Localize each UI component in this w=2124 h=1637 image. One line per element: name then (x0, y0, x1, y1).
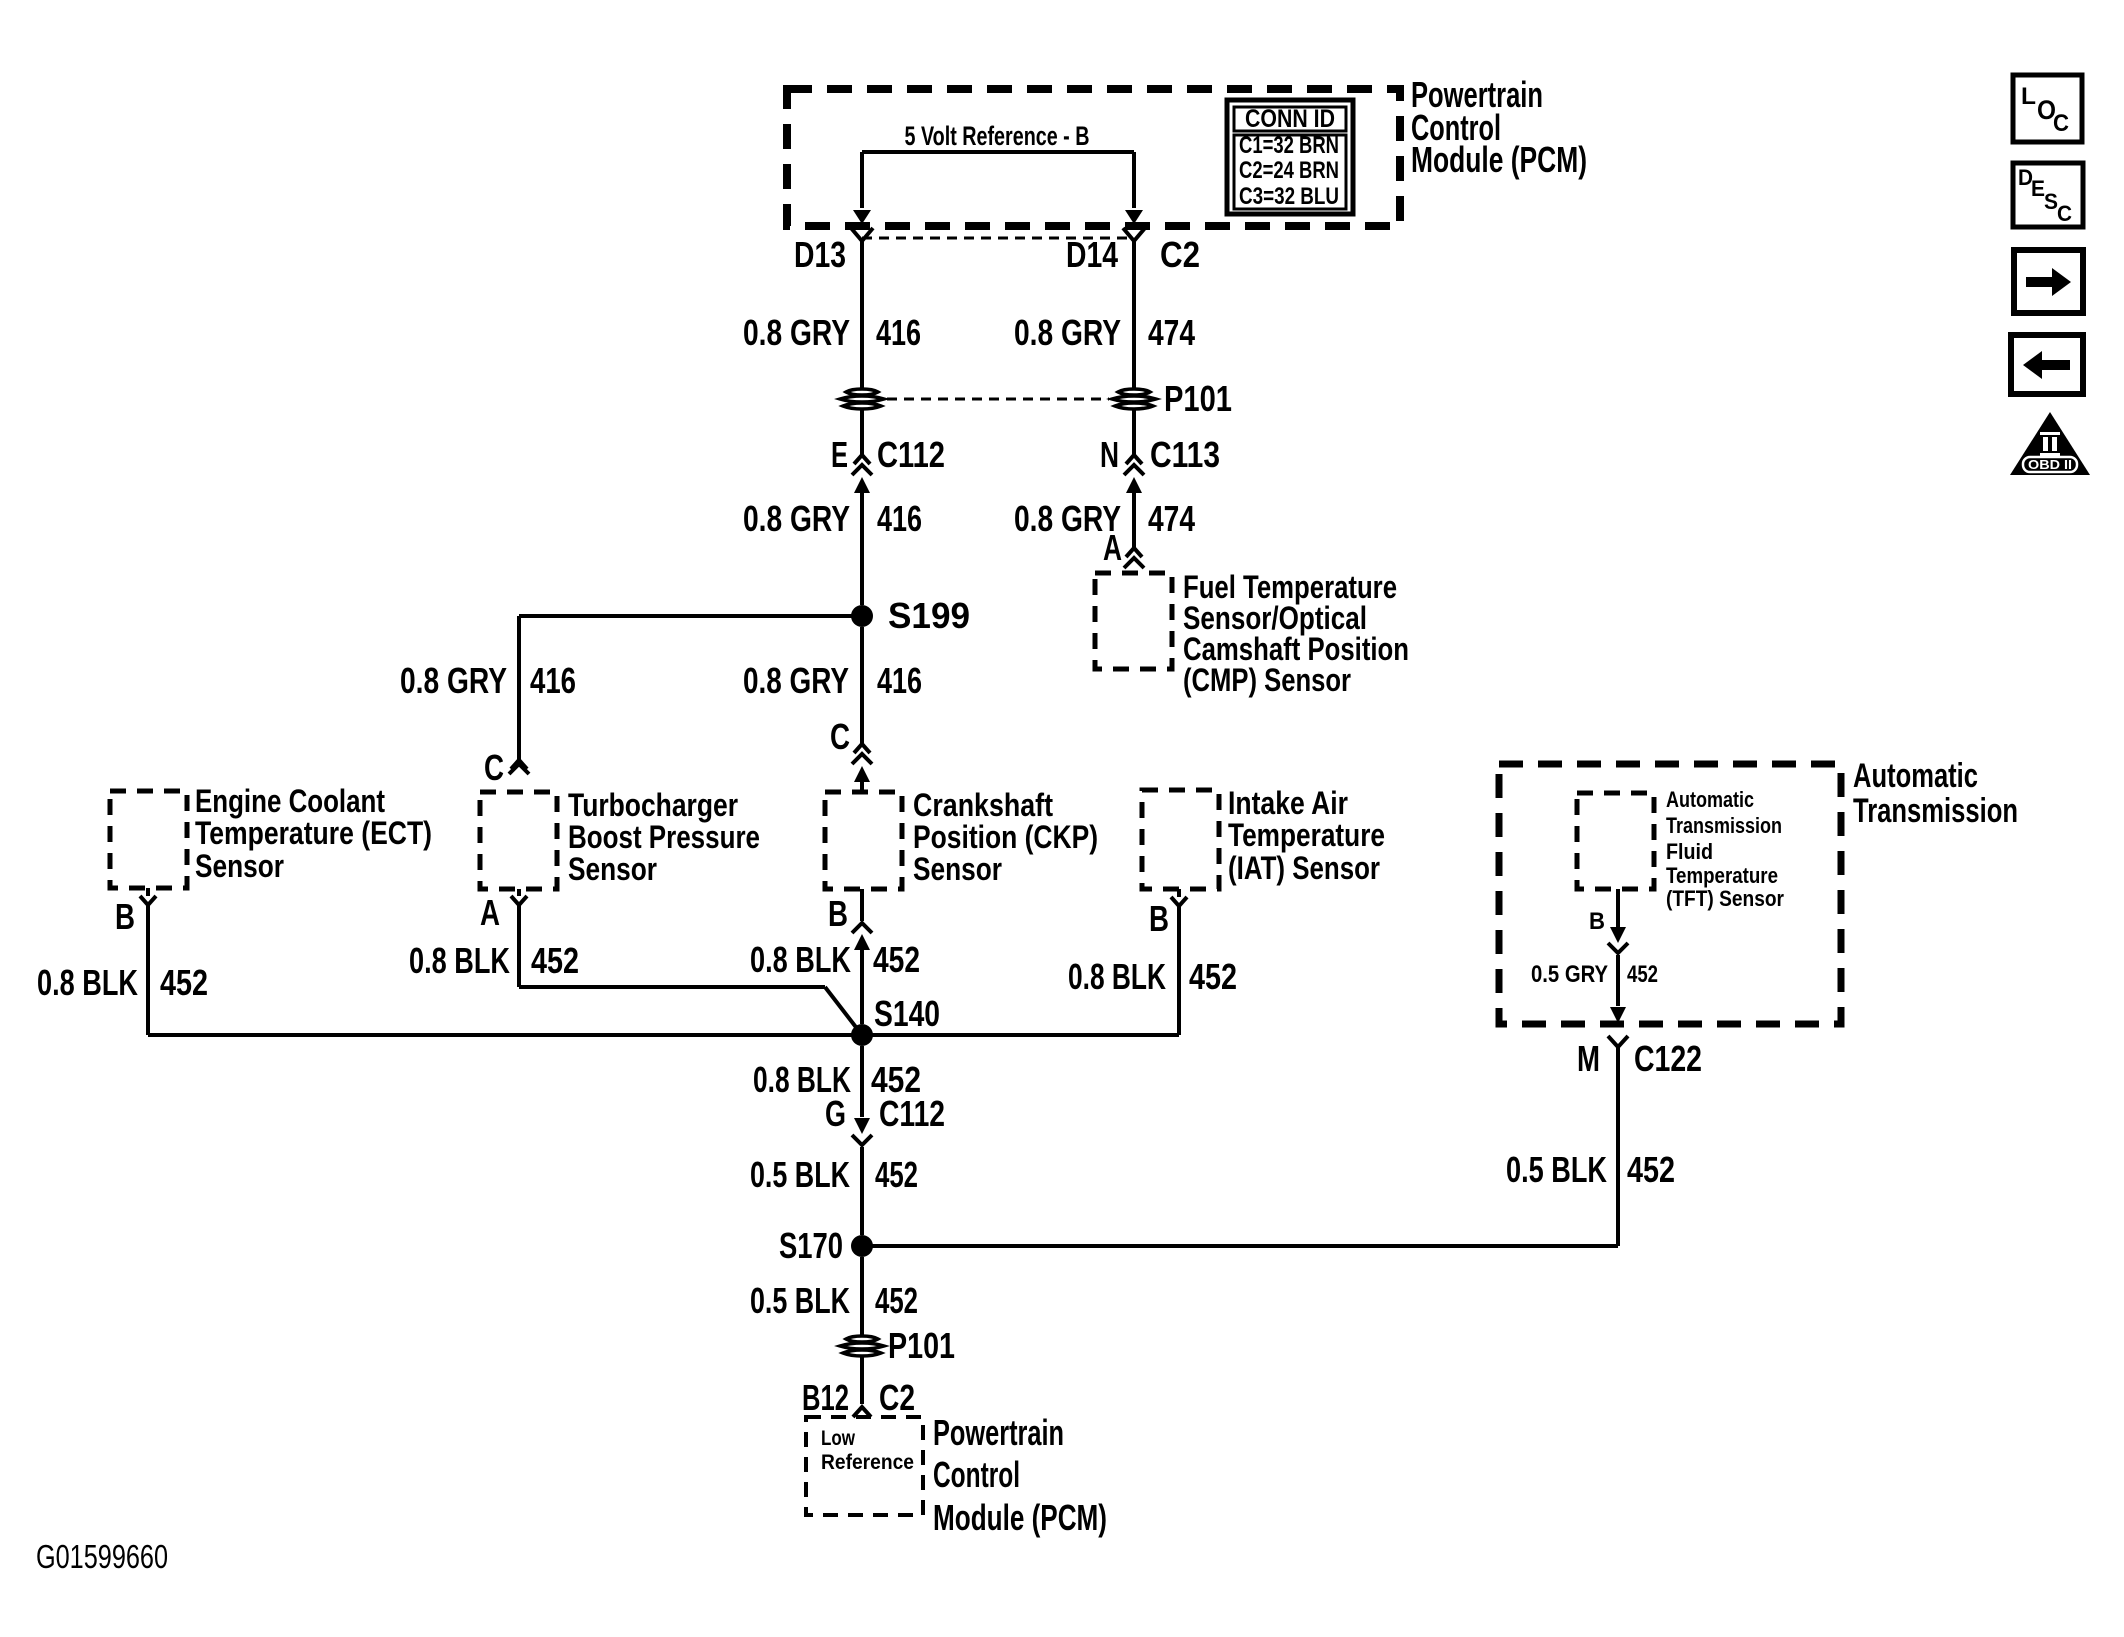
svg-text:E: E (2031, 176, 2045, 201)
svg-text:416: 416 (877, 660, 922, 701)
svg-text:C112: C112 (879, 1093, 945, 1134)
svg-text:G01599660: G01599660 (36, 1538, 168, 1575)
svg-text:Fluid: Fluid (1666, 839, 1713, 864)
svg-text:452: 452 (531, 940, 579, 981)
svg-text:0.8 GRY: 0.8 GRY (1014, 312, 1121, 353)
svg-text:452: 452 (875, 1154, 918, 1195)
svg-text:N: N (1100, 434, 1119, 475)
svg-text:C2: C2 (879, 1377, 915, 1418)
svg-text:C112: C112 (877, 434, 945, 475)
svg-text:Sensor: Sensor (195, 848, 284, 884)
svg-text:474: 474 (1148, 312, 1195, 353)
svg-text:Automatic: Automatic (1666, 787, 1754, 812)
svg-text:Transmission: Transmission (1666, 813, 1782, 838)
svg-text:C: C (484, 747, 504, 788)
svg-text:B12: B12 (802, 1377, 849, 1418)
svg-text:0.8 BLK: 0.8 BLK (37, 962, 138, 1003)
svg-text:0.5 BLK: 0.5 BLK (750, 1280, 850, 1321)
svg-text:D14: D14 (1066, 234, 1118, 275)
svg-text:(TFT) Sensor: (TFT) Sensor (1666, 886, 1784, 911)
svg-text:Low: Low (821, 1427, 856, 1450)
svg-text:0.8 GRY: 0.8 GRY (743, 498, 850, 539)
svg-text:C113: C113 (1150, 434, 1220, 475)
svg-text:0.8 GRY: 0.8 GRY (400, 660, 507, 701)
svg-text:416: 416 (877, 498, 922, 539)
svg-text:Engine Coolant: Engine Coolant (195, 783, 385, 819)
svg-text:S: S (2044, 189, 2058, 214)
svg-text:S170: S170 (779, 1225, 843, 1266)
svg-text:C: C (2053, 110, 2069, 137)
svg-text:Sensor: Sensor (913, 851, 1002, 887)
svg-text:A: A (1103, 527, 1122, 568)
svg-text:B: B (115, 896, 135, 937)
svg-text:S140: S140 (874, 993, 940, 1034)
svg-text:E: E (831, 434, 848, 475)
svg-text:Temperature: Temperature (1666, 863, 1778, 888)
svg-text:452: 452 (1627, 1149, 1675, 1190)
svg-text:0.5 BLK: 0.5 BLK (1506, 1149, 1607, 1190)
svg-text:474: 474 (1148, 498, 1195, 539)
svg-text:Transmission: Transmission (1853, 792, 2018, 830)
svg-text:5 Volt Reference - B: 5 Volt Reference - B (905, 121, 1090, 151)
svg-text:S199: S199 (888, 595, 970, 636)
svg-text:(IAT) Sensor: (IAT) Sensor (1228, 850, 1380, 886)
svg-text:C122: C122 (1634, 1038, 1702, 1079)
svg-text:452: 452 (875, 1280, 918, 1321)
svg-text:Position (CKP): Position (CKP) (913, 819, 1098, 855)
svg-text:D13: D13 (794, 234, 846, 275)
svg-text:0.8 BLK: 0.8 BLK (1068, 956, 1166, 997)
svg-text:P101: P101 (888, 1325, 955, 1366)
svg-text:OBD II: OBD II (2028, 457, 2072, 472)
svg-text:P101: P101 (1164, 378, 1232, 419)
svg-text:Crankshaft: Crankshaft (913, 787, 1053, 823)
svg-text:0.8 GRY: 0.8 GRY (743, 312, 850, 353)
svg-text:0.8 BLK: 0.8 BLK (409, 940, 510, 981)
svg-text:C2=24 BRN: C2=24 BRN (1239, 157, 1339, 184)
svg-text:452: 452 (1189, 956, 1237, 997)
svg-text:Temperature (ECT): Temperature (ECT) (195, 815, 432, 851)
svg-text:Boost Pressure: Boost Pressure (568, 819, 760, 855)
svg-text:452: 452 (873, 939, 920, 980)
svg-text:(CMP) Sensor: (CMP) Sensor (1183, 662, 1351, 698)
svg-text:C: C (830, 716, 850, 757)
svg-text:B: B (1149, 898, 1169, 939)
svg-text:Powertrain: Powertrain (933, 1412, 1064, 1453)
svg-text:A: A (480, 892, 500, 933)
svg-text:Module (PCM): Module (PCM) (1411, 139, 1587, 180)
svg-text:Module (PCM): Module (PCM) (933, 1497, 1107, 1538)
svg-text:416: 416 (876, 312, 921, 353)
svg-text:Turbocharger: Turbocharger (568, 787, 738, 823)
svg-text:L: L (2021, 83, 2036, 110)
svg-text:0.8 GRY: 0.8 GRY (743, 660, 849, 701)
svg-text:0.8 BLK: 0.8 BLK (750, 939, 851, 980)
svg-text:0.5 GRY: 0.5 GRY (1531, 961, 1608, 988)
svg-text:CONN ID: CONN ID (1245, 105, 1335, 133)
svg-text:Temperature: Temperature (1228, 817, 1385, 853)
svg-text:0.5 BLK: 0.5 BLK (750, 1154, 850, 1195)
svg-text:Sensor: Sensor (568, 851, 657, 887)
svg-text:C3=32 BLU: C3=32 BLU (1239, 183, 1339, 210)
svg-text:M: M (1577, 1038, 1600, 1079)
svg-text:Control: Control (933, 1454, 1020, 1495)
svg-text:452: 452 (160, 962, 208, 1003)
svg-text:Reference: Reference (821, 1451, 914, 1474)
svg-text:C: C (2057, 201, 2072, 226)
svg-text:B: B (828, 893, 848, 934)
svg-text:Automatic: Automatic (1853, 757, 1978, 795)
svg-text:C2: C2 (1160, 234, 1200, 275)
svg-text:B: B (1589, 908, 1605, 935)
svg-text:416: 416 (530, 660, 576, 701)
svg-text:G: G (825, 1093, 846, 1134)
svg-text:C1=32 BRN: C1=32 BRN (1239, 132, 1339, 159)
svg-text:Intake Air: Intake Air (1228, 785, 1348, 821)
svg-text:452: 452 (1627, 961, 1658, 988)
